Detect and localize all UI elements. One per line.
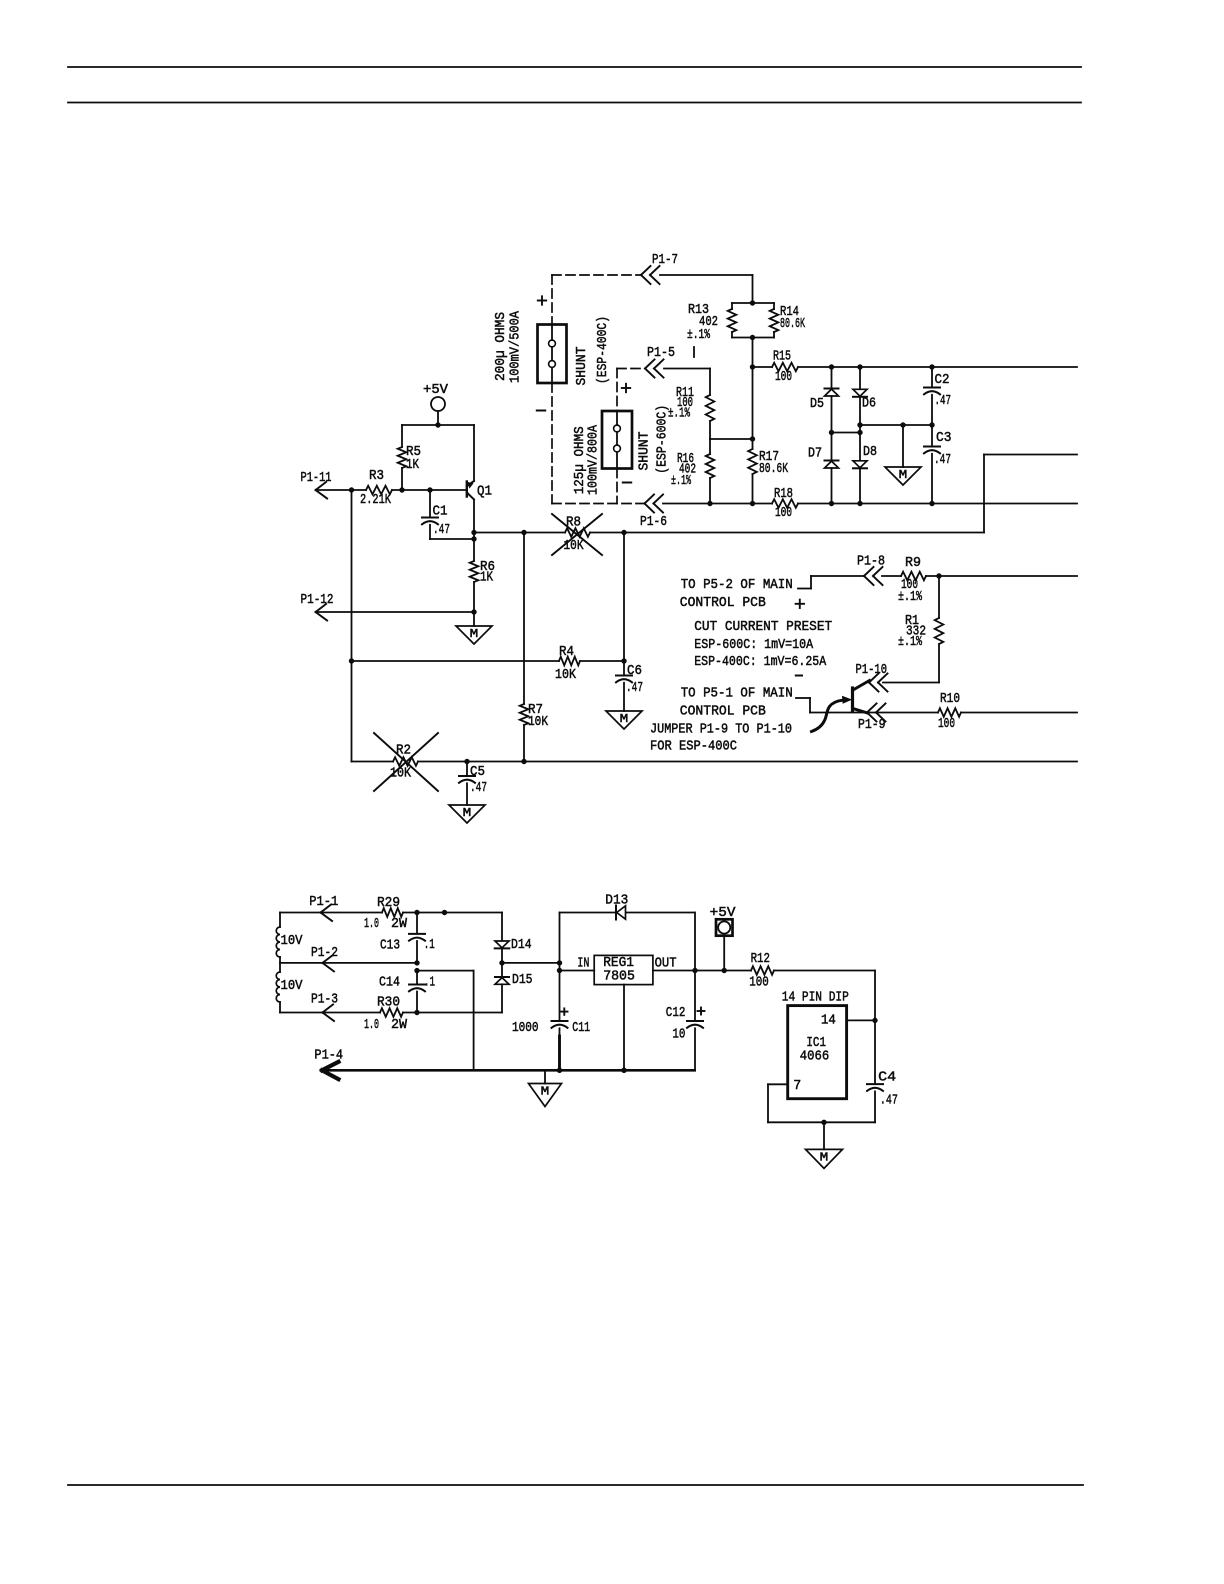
svg-text:80.6K: 80.6K: [780, 316, 805, 332]
svg-text:C12: C12: [666, 1005, 686, 1021]
svg-text:D15: D15: [512, 972, 533, 988]
svg-text:IN: IN: [577, 956, 589, 972]
svg-text:R4: R4: [559, 644, 574, 660]
svg-text:P1-6: P1-6: [640, 514, 667, 530]
svg-text:C3: C3: [936, 430, 952, 446]
svg-text:R8: R8: [566, 515, 581, 531]
svg-text:1K: 1K: [406, 457, 419, 473]
svg-text:R29: R29: [377, 895, 400, 911]
svg-text:.47: .47: [433, 522, 450, 538]
svg-text:P1-5: P1-5: [647, 345, 675, 361]
svg-text:C2: C2: [935, 372, 950, 388]
svg-text:1000: 1000: [512, 1020, 539, 1036]
svg-text:TO P5-1 OF MAIN: TO P5-1 OF MAIN: [681, 686, 793, 702]
svg-text:OUT: OUT: [655, 956, 677, 972]
svg-text:1.0: 1.0: [364, 916, 379, 932]
svg-text:100mV/800A: 100mV/800A: [586, 425, 602, 495]
svg-text:100: 100: [775, 505, 792, 521]
svg-text:TO P5-2 OF MAIN: TO P5-2 OF MAIN: [681, 577, 793, 593]
svg-text:D5: D5: [810, 396, 824, 412]
svg-text:D13: D13: [605, 893, 628, 909]
svg-text:R3: R3: [369, 468, 384, 484]
svg-text:100: 100: [775, 369, 792, 385]
svg-text:100: 100: [749, 975, 769, 991]
svg-text:10: 10: [672, 1027, 685, 1043]
svg-text:10V: 10V: [281, 978, 304, 994]
svg-text:P1-11: P1-11: [301, 470, 332, 486]
svg-text:C14: C14: [379, 975, 400, 991]
svg-text:±.1%: ±.1%: [668, 406, 690, 422]
svg-text:100: 100: [938, 716, 955, 732]
svg-text:M: M: [470, 627, 479, 641]
svg-text:D14: D14: [511, 937, 532, 953]
svg-text:CUT CURRENT PRESET: CUT CURRENT PRESET: [694, 619, 832, 635]
svg-text:.47: .47: [880, 1093, 898, 1109]
svg-text:CONTROL PCB: CONTROL PCB: [680, 595, 766, 611]
svg-text:FOR ESP-400C: FOR ESP-400C: [650, 739, 737, 755]
svg-text:ESP-600C: 1mV=10A: ESP-600C: 1mV=10A: [694, 637, 813, 653]
svg-text:7805: 7805: [603, 969, 635, 985]
svg-text:1K: 1K: [480, 570, 493, 586]
svg-text:D7: D7: [808, 446, 822, 462]
svg-text:Q1: Q1: [477, 484, 492, 500]
svg-text:+5V: +5V: [710, 905, 736, 921]
svg-text:10K: 10K: [555, 667, 576, 683]
svg-text:P1-4: P1-4: [314, 1048, 343, 1064]
svg-text:2W: 2W: [391, 916, 408, 932]
svg-text:.47: .47: [470, 780, 487, 796]
svg-text:C1: C1: [433, 504, 448, 520]
svg-text:C5: C5: [470, 764, 485, 780]
svg-text:M: M: [820, 1150, 829, 1164]
svg-text:SHUNT: SHUNT: [574, 347, 590, 386]
svg-text:P1-12: P1-12: [301, 592, 334, 608]
svg-text:R18: R18: [774, 486, 793, 502]
svg-text:.1: .1: [424, 937, 435, 953]
svg-text:C6: C6: [627, 663, 642, 679]
svg-text:±.1%: ±.1%: [898, 589, 922, 605]
svg-text:P1-7: P1-7: [652, 252, 678, 268]
svg-text:1.0: 1.0: [364, 1017, 379, 1033]
svg-text:JUMPER P1-9 TO P1-10: JUMPER P1-9 TO P1-10: [650, 722, 792, 738]
svg-text:4066: 4066: [800, 1049, 829, 1065]
svg-text:CONTROL PCB: CONTROL PCB: [680, 704, 766, 720]
svg-text:R30: R30: [377, 995, 400, 1011]
svg-text:10K: 10K: [564, 538, 584, 554]
svg-text:M: M: [899, 468, 908, 482]
svg-text:.47: .47: [626, 680, 643, 696]
svg-text:M: M: [541, 1085, 550, 1099]
svg-text:100mV/500A: 100mV/500A: [508, 310, 524, 383]
svg-text:R9: R9: [905, 555, 921, 571]
svg-text:P1-2: P1-2: [311, 945, 338, 961]
svg-text:(ESP-600C): (ESP-600C): [655, 405, 671, 474]
svg-text:±.1%: ±.1%: [687, 327, 710, 343]
svg-text:M: M: [620, 712, 629, 726]
svg-text:P1-3: P1-3: [311, 992, 338, 1008]
svg-text:.1: .1: [424, 974, 435, 990]
svg-text:.47: .47: [934, 452, 951, 468]
svg-text:R12: R12: [751, 951, 770, 967]
svg-text:D8: D8: [863, 444, 877, 460]
svg-text:M: M: [463, 806, 472, 820]
svg-text:C11: C11: [572, 1020, 590, 1036]
svg-text:14 PIN DIP: 14 PIN DIP: [782, 990, 849, 1006]
svg-text:10V: 10V: [281, 933, 304, 949]
svg-text:7: 7: [793, 1078, 801, 1094]
svg-text:±.1%: ±.1%: [671, 473, 691, 489]
svg-text:P1-1: P1-1: [309, 894, 338, 910]
svg-text:ESP-400C: 1mV=6.25A: ESP-400C: 1mV=6.25A: [694, 654, 826, 670]
svg-text:C13: C13: [380, 938, 400, 954]
svg-text:2W: 2W: [391, 1017, 408, 1033]
svg-text:(ESP-400C): (ESP-400C): [595, 316, 611, 384]
svg-text:C4: C4: [878, 1070, 896, 1086]
svg-text:10K: 10K: [528, 714, 548, 730]
svg-text:.47: .47: [935, 393, 952, 409]
svg-text:10K: 10K: [390, 766, 411, 782]
svg-text:R10: R10: [940, 691, 960, 707]
svg-text:R15: R15: [773, 349, 791, 365]
svg-text:±.1%: ±.1%: [898, 634, 922, 650]
svg-text:2.21K: 2.21K: [360, 492, 391, 508]
svg-text:80.6K: 80.6K: [759, 461, 788, 477]
svg-text:P1-8: P1-8: [857, 554, 885, 570]
svg-text:SHUNT: SHUNT: [637, 432, 653, 471]
svg-text:D6: D6: [862, 396, 876, 412]
svg-text:14: 14: [821, 1013, 836, 1029]
svg-text:+5V: +5V: [423, 382, 449, 398]
svg-text:R2: R2: [396, 743, 411, 759]
svg-text:P1-10: P1-10: [856, 662, 888, 678]
svg-text:P1-9: P1-9: [858, 717, 886, 733]
